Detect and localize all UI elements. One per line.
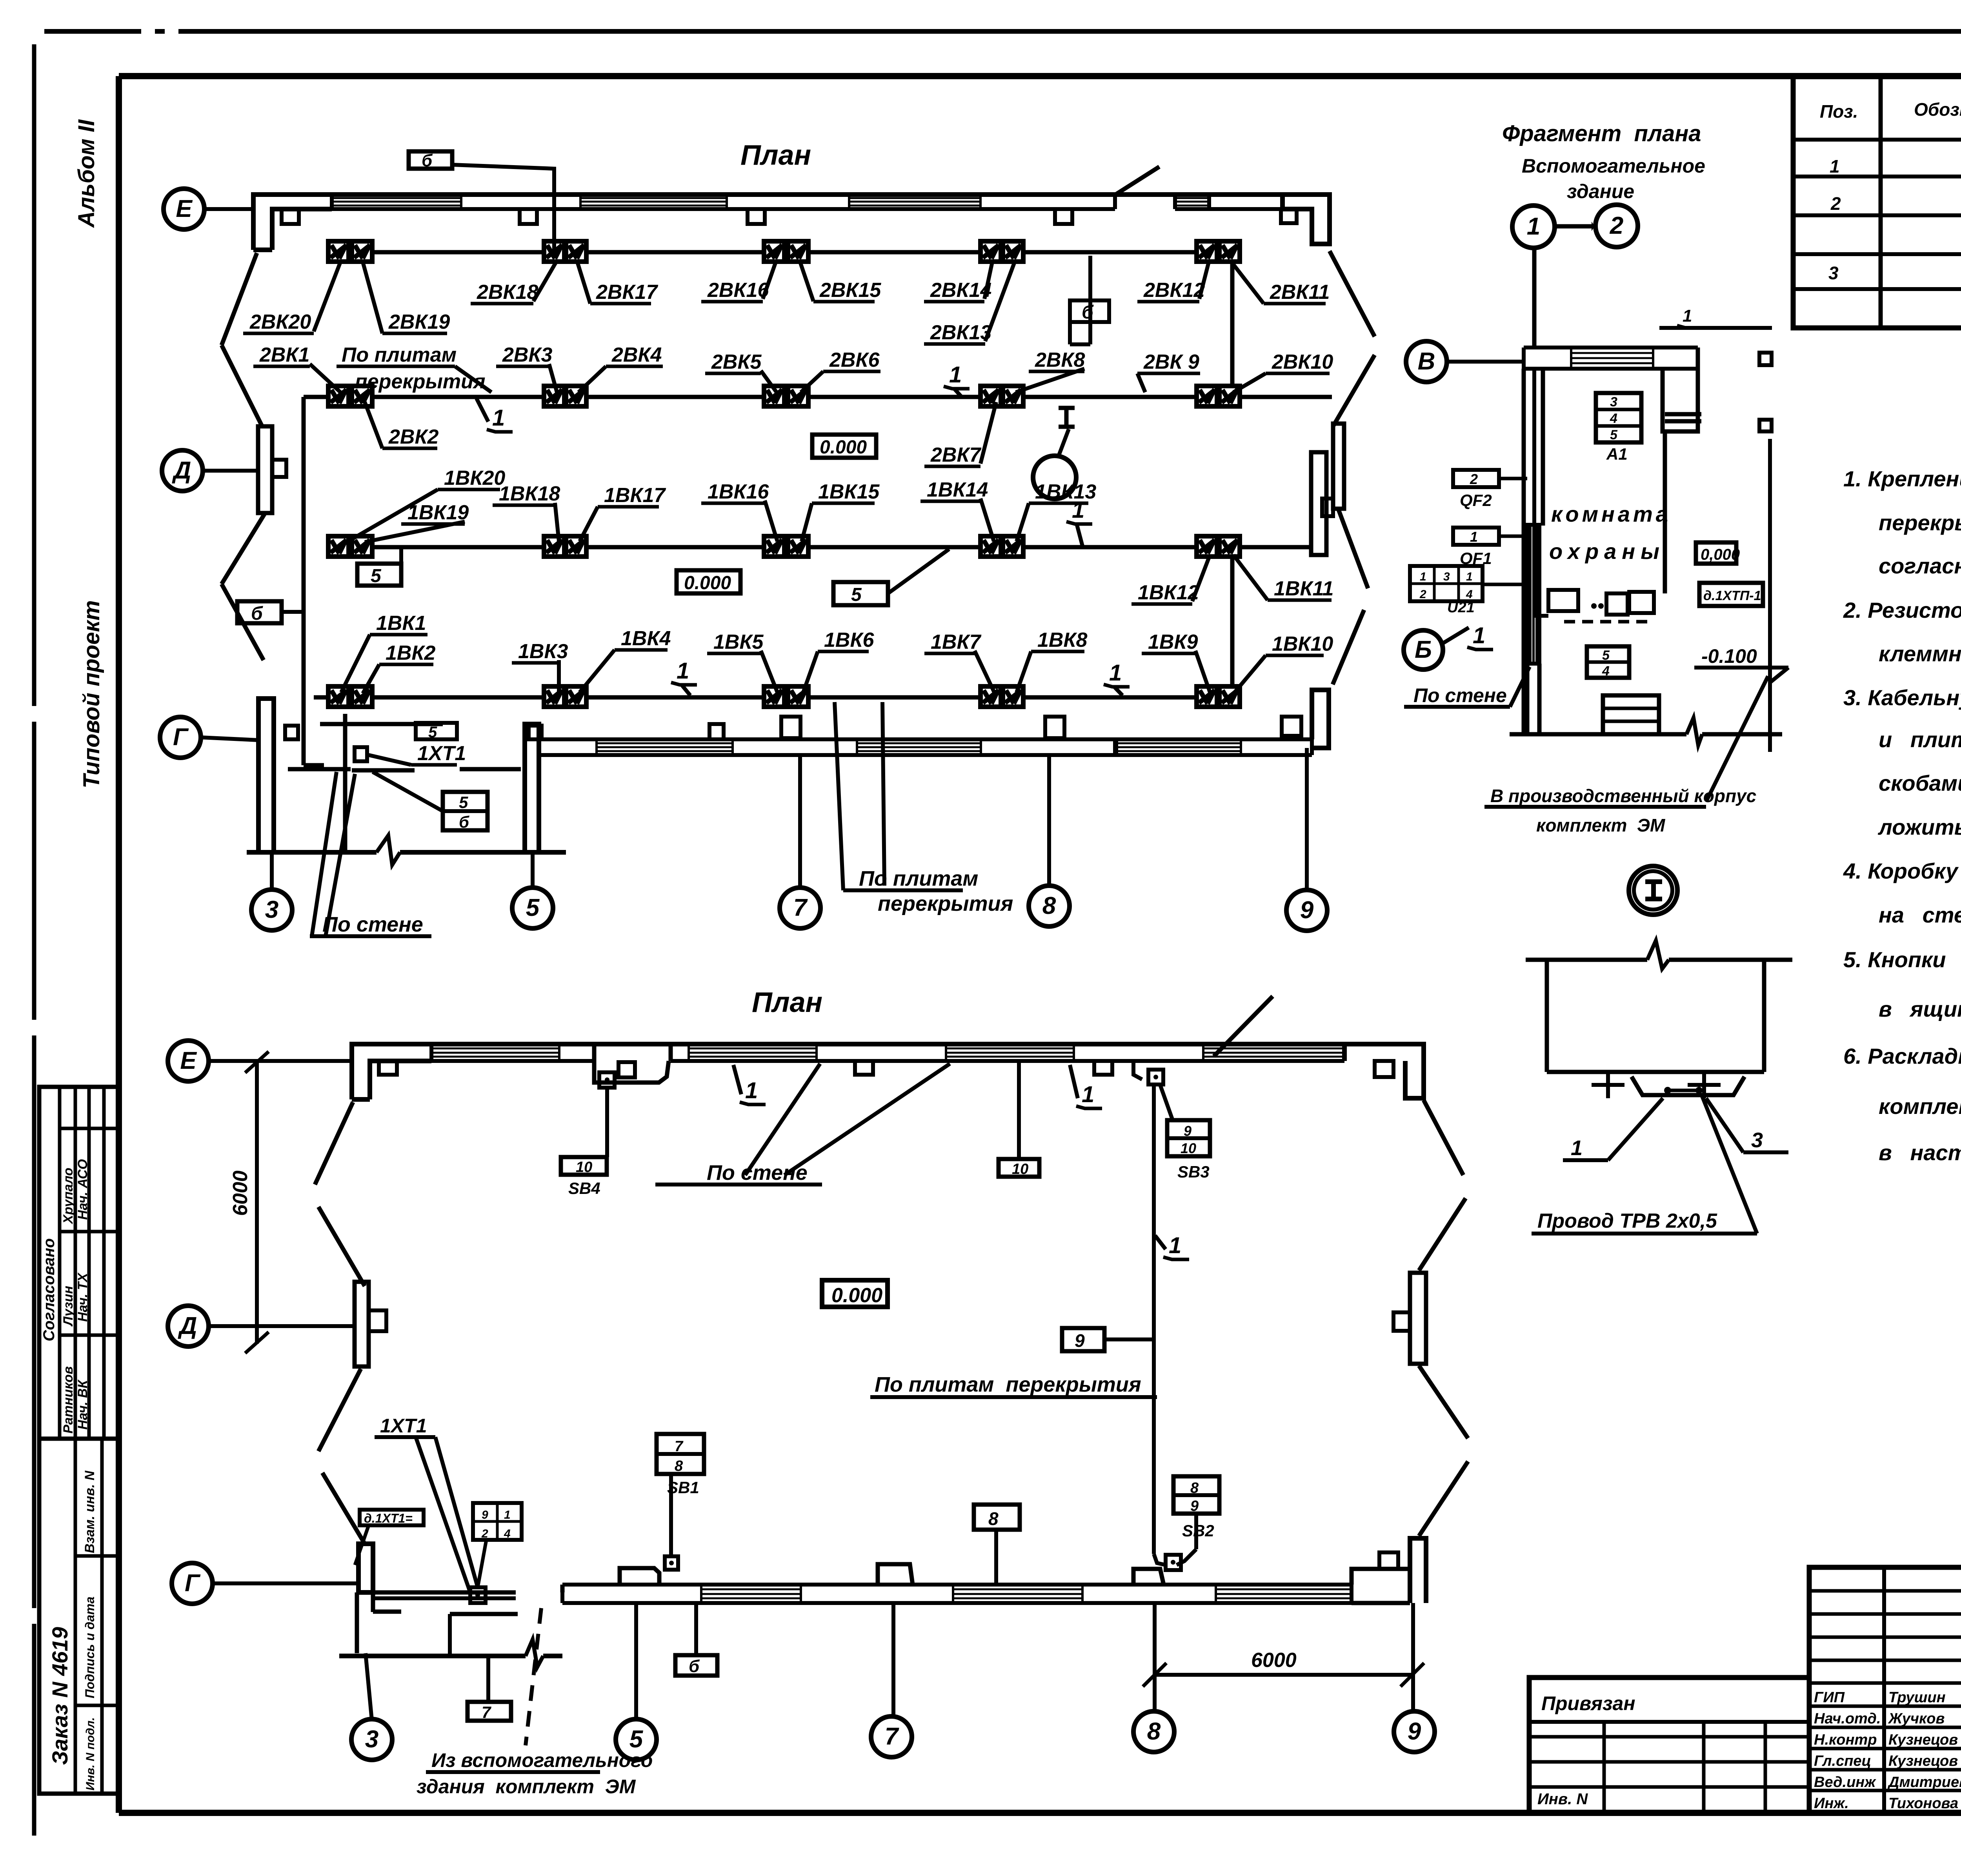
svg-text:1ВК1: 1ВК1 <box>376 612 426 635</box>
svg-text:Трушин: Трушин <box>1888 1689 1946 1706</box>
svg-text:Тихонова: Тихонова <box>1888 1795 1958 1812</box>
detector pair row4 x1974 <box>764 686 784 707</box>
svg-text:6000: 6000 <box>1251 1649 1297 1672</box>
svg-text:Подпись и дата: Подпись и дата <box>83 1597 97 1698</box>
svg-text:Хрупало: Хрупало <box>61 1168 76 1225</box>
svg-text:Инж.: Инж. <box>1814 1795 1849 1812</box>
upper plan wall corner pillar row E <box>253 195 1282 250</box>
svg-text:10: 10 <box>576 1159 592 1175</box>
vertical connector right end rows3-4 <box>1230 547 1235 697</box>
detector pair row3 x1413 <box>544 536 564 557</box>
detector pair row1 x863 <box>328 241 349 262</box>
svg-text:0,000: 0,000 <box>1701 546 1740 563</box>
svg-text:Нач. ВК: Нач. ВК <box>75 1379 90 1430</box>
left margin lower table (Zakaz/Inv) <box>39 1439 119 1794</box>
SB2 riser <box>1152 1084 1156 1554</box>
svg-text:1ВК6: 1ВК6 <box>824 629 874 651</box>
1XT1 junction square <box>470 1587 486 1603</box>
pilaster G <box>709 724 724 739</box>
leader flag 6 row1 <box>1070 300 1109 322</box>
svg-text:2: 2 <box>1470 471 1478 487</box>
lower plan doorway step mid <box>878 1564 913 1585</box>
svg-text:5: 5 <box>851 584 862 605</box>
detector pair row2 x2526 <box>980 386 1001 406</box>
svg-text:5: 5 <box>459 793 468 812</box>
SB2 boxes <box>1173 1476 1219 1514</box>
detector pair row4 x863 <box>328 686 349 707</box>
svg-text:3: 3 <box>1751 1128 1763 1152</box>
svg-text:9: 9 <box>482 1508 488 1521</box>
svg-text:План: План <box>752 987 822 1018</box>
svg-text:1: 1 <box>1169 1233 1181 1258</box>
SB3 wall junction square <box>1148 1070 1163 1084</box>
elevation box 0.000 upper <box>812 435 876 458</box>
section mark I upper <box>1059 406 1075 410</box>
lower plan doorway step SB2 <box>1133 1569 1164 1585</box>
svg-text:Согласовано: Согласовано <box>40 1238 58 1341</box>
svg-text:2ВК4: 2ВК4 <box>611 344 662 366</box>
svg-text:Г: Г <box>173 724 189 751</box>
svg-text:8: 8 <box>988 1508 999 1529</box>
fragment grid line V <box>1447 360 1524 364</box>
svg-text:2: 2 <box>481 1527 488 1540</box>
svg-text:ложить на отм. 4.500: ложить на отм. 4.500 от уровня пола. <box>1877 815 1961 839</box>
svg-text:U21: U21 <box>1447 599 1475 616</box>
column line 5 upper plan <box>531 852 535 887</box>
lower plan grid circle 5 <box>616 1719 657 1760</box>
boxes 5/4 fragment <box>1587 646 1629 678</box>
detector run line row 1 (2BK11-2BK20) <box>338 250 1230 255</box>
svg-text:1ВК12: 1ВК12 <box>1138 581 1199 604</box>
fragment grid circle 2 <box>1595 205 1638 247</box>
svg-text:комплекте марки ЭМ, ка: комплекте марки ЭМ, кабель учитывается <box>1879 1094 1961 1119</box>
main frame <box>119 73 1961 79</box>
grid circle D upper plan <box>162 450 203 491</box>
elevation box 0.000 lower <box>677 570 740 593</box>
detector pair row1 x1974 <box>764 241 784 262</box>
svg-text:Альбом II: Альбом II <box>74 119 99 228</box>
svg-text:2ВК12: 2ВК12 <box>1143 279 1205 302</box>
svg-text:1ВК3: 1ВК3 <box>518 640 568 663</box>
svg-text:Е: Е <box>176 195 193 222</box>
svg-text:1ХТ1: 1ХТ1 <box>380 1415 427 1437</box>
cable riser left wall <box>302 397 306 765</box>
svg-text:1: 1 <box>504 1508 511 1521</box>
svg-text:4: 4 <box>1602 664 1610 679</box>
svg-text:2ВК5: 2ВК5 <box>711 351 762 373</box>
svg-text:перекрытия: перекрытия <box>878 892 1013 915</box>
pilaster lower top 5 <box>1375 1061 1393 1077</box>
SB1 riser <box>669 1474 673 1556</box>
svg-text:8: 8 <box>1042 892 1056 919</box>
svg-text:2ВК15: 2ВК15 <box>819 279 881 302</box>
fragment arrow 1-2 <box>1555 224 1595 229</box>
svg-text:9: 9 <box>1190 1498 1199 1514</box>
box 10 SB4 <box>561 1157 607 1175</box>
svg-text:1ВК8: 1ВК8 <box>1037 629 1087 651</box>
room block interior walls lower <box>288 767 351 772</box>
svg-text:комплект ЭМ: комплект ЭМ <box>1536 815 1666 835</box>
svg-text:1ВК15: 1ВК15 <box>818 480 880 503</box>
svg-text:в ящике совместно с: в ящике совместно с пожарными кранами. <box>1879 997 1961 1021</box>
fragment ground break symbol <box>1686 718 1702 745</box>
room block left pillar <box>258 699 274 852</box>
upper plan left pilaster row D <box>258 426 272 513</box>
lower plan bottom wall band <box>562 1583 1352 1587</box>
detector pair row2 x863 <box>328 386 349 406</box>
grid line D upper plan <box>203 469 258 473</box>
svg-text:7: 7 <box>675 1438 684 1455</box>
fragment grid circle B <box>1404 630 1443 670</box>
upper plan right pilaster row D <box>1333 424 1344 509</box>
svg-text:4: 4 <box>1610 411 1617 426</box>
svg-text:Вед.инж: Вед.инж <box>1814 1774 1876 1790</box>
svg-text:6000: 6000 <box>229 1170 252 1216</box>
detector pair row1 x3077 <box>1197 241 1217 262</box>
svg-text:Б: Б <box>1415 636 1432 663</box>
fragment inner cable vertical <box>1532 369 1536 616</box>
label 5/6 stacked <box>443 792 488 830</box>
pilaster G <box>781 717 800 738</box>
svg-text:4. Коробку соединительную: 4. Коробку соединительную 1ХТ1 установит… <box>1843 859 1961 883</box>
svg-text:б: б <box>251 603 263 624</box>
svg-text:9: 9 <box>1408 1718 1421 1745</box>
SB1 wall junction <box>665 1556 678 1570</box>
elevation box 0.000 lower plan <box>822 1280 888 1307</box>
detector pair row3 x3077 <box>1197 536 1217 557</box>
detector pair row3 x2526 <box>980 536 1001 557</box>
column line 3 upper plan <box>270 852 274 890</box>
grid circle G upper plan <box>160 717 201 758</box>
svg-text:5: 5 <box>1610 428 1618 442</box>
svg-text:5: 5 <box>629 1726 644 1753</box>
pilaster lower top 4 <box>1094 1061 1112 1075</box>
svg-text:А1: А1 <box>1606 445 1628 463</box>
lower plan grid circle 9 <box>1394 1711 1435 1752</box>
leader flag 6 left row2 <box>237 601 282 623</box>
leader to -0.100 tick <box>1706 676 1768 801</box>
svg-text:б: б <box>422 151 433 170</box>
lower plan right edge zigzag <box>1424 1100 1463 1175</box>
svg-text:Нач.отд.: Нач.отд. <box>1814 1710 1881 1727</box>
fragment ground line <box>1510 732 1686 737</box>
fragment riser from circle 1 <box>1532 248 1537 348</box>
svg-text:комната: комната <box>1551 502 1671 526</box>
fragment left wall hatched column <box>1527 525 1539 664</box>
detail I section circle <box>1629 866 1677 915</box>
svg-text:2ВК 9: 2ВК 9 <box>1143 351 1199 373</box>
room block small square <box>285 726 298 739</box>
room block vertical wall <box>343 714 347 852</box>
lower plan bottom-right corner <box>1352 1569 1410 1585</box>
upper plan right corner row G <box>1312 690 1329 748</box>
elevation box 0,000 fragment <box>1696 542 1736 564</box>
svg-text:Н.контр: Н.контр <box>1814 1732 1877 1748</box>
svg-text:План: План <box>740 140 811 171</box>
grid circle 9 upper plan <box>1286 890 1327 931</box>
svg-text:По плитам: По плитам <box>342 344 457 366</box>
svg-text:1ВК20: 1ВК20 <box>444 467 505 489</box>
label box Q1XT1 grid <box>473 1503 522 1540</box>
panel A1 table <box>1596 393 1641 442</box>
svg-text:7: 7 <box>482 1703 491 1721</box>
column line 9 upper plan <box>1305 748 1309 889</box>
lower plan grid circle G <box>172 1563 213 1604</box>
lower plan grid circle 7 <box>871 1716 912 1757</box>
dimension 6000 vertical <box>255 1061 259 1344</box>
svg-text:2ВК20: 2ВК20 <box>249 311 311 333</box>
svg-text:3: 3 <box>1610 395 1617 409</box>
grid circle E upper plan <box>164 189 204 229</box>
svg-text:По плитам: По плитам <box>859 867 978 890</box>
svg-text:3: 3 <box>1443 570 1450 583</box>
svg-text:1ВК18: 1ВК18 <box>499 482 560 505</box>
lower plan grid line E <box>209 1059 352 1063</box>
svg-text:2ВК11: 2ВК11 <box>1270 281 1330 304</box>
svg-text:Г: Г <box>185 1570 201 1597</box>
lower plan grid circle 3 <box>351 1719 392 1760</box>
lower plan grid circle 8 <box>1133 1711 1174 1752</box>
fragment left wall <box>1522 369 1526 734</box>
svg-text:Нач. АСО: Нач. АСО <box>75 1159 90 1220</box>
pilaster <box>282 209 299 224</box>
detail I mount cross left <box>1606 1072 1610 1098</box>
svg-text:0.000: 0.000 <box>820 437 867 458</box>
sheet outer border left <box>32 44 36 706</box>
svg-text:5: 5 <box>1602 648 1610 663</box>
leader box 5 row3 <box>357 564 401 586</box>
svg-text:2ВК7: 2ВК7 <box>930 444 981 466</box>
SB1 boxes <box>657 1434 704 1474</box>
svg-text:10: 10 <box>1012 1161 1028 1177</box>
SB3 wall junction doorway <box>1133 1061 1142 1079</box>
fragment top wall band <box>1524 346 1698 349</box>
svg-text:2ВК2: 2ВК2 <box>388 426 438 448</box>
dashed cable under floor <box>1564 620 1648 624</box>
svg-text:Провод ТРВ 2х0,5: Провод ТРВ 2х0,5 <box>1537 1210 1717 1232</box>
detail I mount cross right <box>1702 1072 1706 1098</box>
svg-text:Фрагмент плана: Фрагмент плана <box>1502 121 1701 146</box>
dashed leader to text <box>526 1608 541 1745</box>
svg-text:1ВК14: 1ВК14 <box>927 479 988 501</box>
materials table frame <box>1793 76 1961 328</box>
lower plan column line 5 <box>634 1603 638 1720</box>
svg-text:1: 1 <box>1082 1082 1094 1107</box>
svg-text:Дмитриев: Дмитриев <box>1887 1774 1961 1790</box>
privyazan table <box>1529 1678 1809 1813</box>
svg-text:д.1ХТП-1: д.1ХТП-1 <box>1703 588 1761 603</box>
break symbol bottom wall <box>377 835 400 865</box>
lower plan bottom-left annex <box>358 1544 373 1592</box>
svg-text:-0.100: -0.100 <box>1701 645 1757 667</box>
section circle I on row3 <box>1033 456 1076 499</box>
svg-text:1: 1 <box>1072 497 1084 523</box>
svg-text:Заказ N 4619: Заказ N 4619 <box>47 1627 72 1765</box>
grid line G upper plan <box>201 737 258 740</box>
fragment right wall stubs <box>1759 353 1772 365</box>
annex interior vertical <box>448 1614 452 1656</box>
svg-text:1ВК19: 1ВК19 <box>407 501 469 524</box>
svg-text:в настоящем комплекте.: в настоящем комплекте. <box>1879 1140 1961 1165</box>
svg-text:б: б <box>459 813 469 831</box>
SB4 riser <box>605 1088 609 1157</box>
leader box 5 row3 right <box>833 582 888 605</box>
svg-text:1: 1 <box>1830 156 1840 177</box>
svg-text:По плитам перекрытия: По плитам перекрытия <box>875 1373 1141 1396</box>
lower plan top right leader <box>1214 996 1273 1056</box>
lower plan left pilaster D <box>355 1282 369 1367</box>
svg-text:Кузнецов: Кузнецов <box>1888 1732 1958 1748</box>
svg-text:2ВК16: 2ВК16 <box>707 279 769 302</box>
svg-text:Инв. N: Инв. N <box>1537 1790 1588 1808</box>
svg-text:д.1ХТ1=: д.1ХТ1= <box>364 1511 413 1525</box>
svg-text:3. Кабельную трассу: 3. Кабельную трассу проложить по стене <box>1843 685 1961 710</box>
fragment grid circle V <box>1406 341 1447 382</box>
column line 8 upper plan <box>1047 755 1051 884</box>
svg-text:2ВК8: 2ВК8 <box>1035 349 1085 371</box>
lower plan right edge zigzag 2 <box>1419 1366 1468 1438</box>
detector pair row2 x1974 <box>764 386 784 406</box>
wall band row G <box>539 737 1115 741</box>
svg-text:1ВК2: 1ВК2 <box>386 642 435 664</box>
svg-text:1: 1 <box>492 405 505 431</box>
fragment QF2 box <box>1453 470 1499 487</box>
svg-text:1ВК17: 1ВК17 <box>604 484 666 507</box>
fragment top-right corner wall <box>1663 348 1698 431</box>
svg-text:1ВК4: 1ВК4 <box>621 627 671 650</box>
junction boxes row fragment <box>1548 590 1578 611</box>
label box d 1XTP-1 <box>1699 583 1763 606</box>
svg-text:8: 8 <box>675 1458 683 1474</box>
lower plan grid circle E <box>168 1041 209 1081</box>
upper plan top wall band row E right piece <box>1175 193 1209 197</box>
pilaster <box>1281 209 1297 223</box>
upper plan top wall right corner <box>1282 195 1330 244</box>
svg-text:8: 8 <box>1147 1718 1161 1745</box>
svg-text:0.000: 0.000 <box>831 1284 882 1307</box>
fragment inner wall stub <box>1665 412 1701 417</box>
box 10 middle <box>999 1159 1039 1177</box>
svg-text:QF2: QF2 <box>1460 491 1492 510</box>
lower plan left edge zigzag <box>315 1102 353 1185</box>
svg-text:клеммной коробке 1ХТ1: клеммной коробке 1ХТ1 <box>1879 641 1961 666</box>
svg-text:здание: здание <box>1567 180 1634 202</box>
svg-text:5. Кнопки управления: 5. Кнопки управления SB1 ÷ SB4 установит… <box>1843 947 1961 972</box>
svg-text:1: 1 <box>1470 529 1478 545</box>
svg-text:Типовой проект: Типовой проект <box>79 600 104 788</box>
fragment QF1 box <box>1453 528 1499 545</box>
lower plan top wall band <box>431 1042 594 1046</box>
pilaster <box>748 209 765 224</box>
leader flag 6 top <box>409 151 452 169</box>
svg-text:5: 5 <box>371 566 382 586</box>
left margin approval table (Soglasovano) <box>39 1087 119 1439</box>
svg-text:2ВК14: 2ВК14 <box>930 279 991 302</box>
svg-text:1ВК5: 1ВК5 <box>713 631 764 653</box>
svg-text:В: В <box>1418 348 1435 375</box>
fragment right section line <box>1768 439 1772 752</box>
svg-text:8: 8 <box>1190 1480 1199 1496</box>
lower plan grid line G <box>213 1581 357 1585</box>
svg-text:Взам. инв. N: Взам. инв. N <box>82 1470 97 1553</box>
svg-text:ГИП: ГИП <box>1814 1689 1845 1706</box>
svg-text:Кузнецов: Кузнецов <box>1888 1753 1958 1769</box>
pilaster lower top 2 <box>618 1062 635 1077</box>
pilaster G <box>1282 717 1301 736</box>
svg-text:2. Резисторы 1R21; 2R21;: 2. Резисторы 1R21; 2R21; 3R3 установить … <box>1843 598 1961 622</box>
svg-text:Е: Е <box>180 1047 197 1074</box>
lower plan column line 3 <box>366 1653 372 1720</box>
svg-text:Д: Д <box>172 457 191 484</box>
detector pair row1 x2526 <box>980 241 1001 262</box>
svg-text:3: 3 <box>365 1726 378 1753</box>
room block right pillar <box>525 724 539 852</box>
SB4 wall button <box>599 1072 615 1088</box>
lower plan grid circle D <box>168 1306 209 1346</box>
upper plan right edge break zigzag upper <box>1330 251 1375 337</box>
detector run line row 3 (1BK11-1BK20) <box>331 545 1311 550</box>
svg-text:здания комплект ЭМ: здания комплект ЭМ <box>417 1776 636 1798</box>
svg-text:Инв. N подл.: Инв. N подл. <box>84 1717 97 1790</box>
svg-text:По стене: По стене <box>707 1161 808 1185</box>
svg-text:2ВК10: 2ВК10 <box>1272 351 1333 373</box>
lower plan column line 7 <box>891 1603 895 1717</box>
svg-text:Вспомогательное: Вспомогательное <box>1522 155 1705 177</box>
staff table <box>1809 1567 1961 1813</box>
upper plan top wall band row E <box>332 193 1115 197</box>
SB2 wall junction <box>1166 1555 1181 1570</box>
fragment grid circle 1 <box>1512 206 1555 248</box>
detector pair row1 x1413 <box>544 241 564 262</box>
detector run line row 2 (2BK1-2BK10) <box>304 395 1332 399</box>
svg-text:9: 9 <box>1300 897 1314 924</box>
svg-text:9: 9 <box>1075 1330 1085 1351</box>
upper plan left edge break zigzag <box>222 253 257 345</box>
svg-text:10: 10 <box>1181 1140 1196 1156</box>
svg-text:2ВК13: 2ВК13 <box>930 321 991 344</box>
detector pair row4 x2526 <box>980 686 1001 707</box>
lower plan doorway recess <box>594 1061 669 1083</box>
lower plan top wall corner pillar <box>352 1044 1344 1099</box>
svg-text:перекрытия на клею БМ: перекрытия на клею БМК-5 или КН9-2/60 <box>1879 510 1961 535</box>
svg-text:1ВК10: 1ВК10 <box>1272 633 1333 655</box>
junction box 9 on wall <box>355 747 367 761</box>
svg-text:Жучков: Жучков <box>1888 1710 1945 1727</box>
detail I box <box>1545 960 1549 1072</box>
svg-text:2ВК6: 2ВК6 <box>829 349 880 371</box>
svg-text:По стене: По стене <box>1413 684 1507 706</box>
svg-text:В производственный корпус: В производственный корпус <box>1490 786 1756 806</box>
svg-text:4: 4 <box>504 1527 511 1540</box>
svg-text:согласно инструкции ВМ: согласно инструкции ВМСН 26-73 и ВМСН 56… <box>1879 553 1961 578</box>
fragment leader 1 from B <box>1443 628 1469 643</box>
svg-text:3: 3 <box>1828 263 1839 283</box>
fragment cable elbow to boxes <box>1534 614 1548 618</box>
svg-text:7: 7 <box>793 894 808 921</box>
pilaster lower top 3 <box>855 1061 873 1075</box>
svg-text:охраны: охраны <box>1549 539 1665 564</box>
svg-text:1: 1 <box>949 362 962 388</box>
svg-text:2ВК17: 2ВК17 <box>596 281 658 304</box>
svg-text:1: 1 <box>1683 306 1692 326</box>
svg-text:1. Крепление датчиков: 1. Крепление датчиков выполнить к плитам <box>1843 466 1961 491</box>
svg-text:2: 2 <box>1610 212 1623 239</box>
label 5 room <box>416 723 457 739</box>
svg-text:0.000: 0.000 <box>684 573 731 593</box>
dimension 6000 horizontal <box>1155 1673 1412 1677</box>
grid circle 5 upper plan <box>512 888 553 928</box>
pilaster lower top <box>379 1061 397 1075</box>
